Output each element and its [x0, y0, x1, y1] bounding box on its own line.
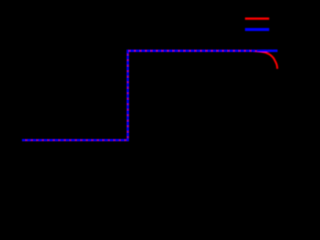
blue dashed curve (numerical solution: step)	[22, 51, 278, 140]
blue solid end segment of numerical curve	[261, 50, 278, 52]
legend blue line sample	[245, 28, 269, 31]
legend red line sample	[245, 18, 269, 20]
chart canvas	[0, 0, 293, 206]
red solid curve (exact solution: step with right boundary droop)	[22, 51, 277, 140]
